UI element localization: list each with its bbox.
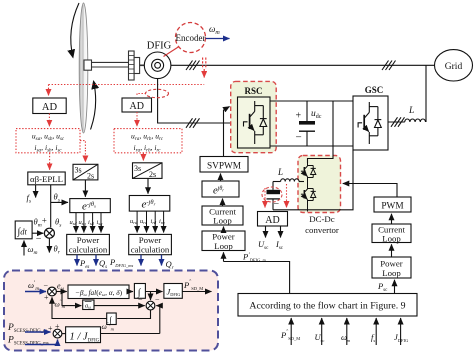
dq signals stator bbox=[75, 213, 77, 233]
svg-text:Encoder: Encoder bbox=[176, 33, 206, 43]
sum junction e_w bbox=[48, 287, 57, 296]
speed signal arrow wm bbox=[206, 38, 230, 40]
sum2 output down-left to integrator 2 bbox=[117, 310, 150, 319]
encoder link line bbox=[164, 47, 180, 57]
IGBT Q-GSC bbox=[358, 102, 381, 144]
svg-text:Grid: Grid bbox=[445, 62, 463, 72]
SC control chain: Power Loop bbox=[372, 257, 411, 278]
integrator to J_DFIG bbox=[145, 291, 162, 293]
3s/2s transform (stator) bbox=[73, 164, 98, 180]
power calculation (stator) bbox=[67, 234, 110, 254]
svg-text:Isc: Isc bbox=[275, 239, 284, 251]
wire GSC to inductor bbox=[388, 121, 405, 123]
svg-text:convertor: convertor bbox=[305, 225, 339, 235]
svg-text:According to the flow chart in: According to the flow chart in Figure. 9 bbox=[249, 300, 405, 311]
wire 3s2s to e-jthr bbox=[147, 178, 149, 193]
svg-text:−: − bbox=[296, 132, 302, 144]
RSC inner bridge box bbox=[238, 97, 271, 148]
e_w branch down bbox=[62, 292, 74, 306]
svg-text:−: − bbox=[44, 281, 49, 290]
wm input bbox=[23, 241, 25, 256]
svg-text:PˆSD_M: PˆSD_M bbox=[280, 330, 300, 341]
IGBT Q-RSC bbox=[244, 101, 267, 144]
rotation arrow left bbox=[71, 3, 79, 58]
svg-text:+: + bbox=[42, 216, 47, 226]
fs output bbox=[35, 185, 37, 198]
svg-text:ωm: ωm bbox=[209, 24, 220, 36]
chopper IGBT upper bbox=[301, 163, 316, 182]
main shaft bbox=[92, 61, 129, 63]
feedback to sum 1 bbox=[52, 298, 107, 319]
three-phase slashes (rotor) bbox=[186, 118, 193, 128]
alpha-beta EPLL block bbox=[28, 172, 65, 185]
anti-parallel diode D-GSC bbox=[377, 107, 379, 136]
svg-text:Psc: Psc bbox=[377, 281, 388, 293]
sc chain arrows bbox=[391, 244, 393, 257]
svg-text:3s: 3s bbox=[75, 166, 82, 175]
grid branch down to GSC filter bbox=[425, 65, 427, 122]
GSC converter box bbox=[353, 96, 388, 150]
dq signals rotor bbox=[136, 211, 138, 232]
svg-text:Power: Power bbox=[380, 258, 403, 268]
gearbox bbox=[129, 51, 135, 80]
theta_s line down to sum bbox=[50, 185, 52, 228]
svg-text:ωm: ωm bbox=[28, 244, 38, 256]
svg-text:calculation: calculation bbox=[131, 245, 170, 255]
svg-text:AD: AD bbox=[265, 215, 279, 226]
measurement bus (dotted) bbox=[49, 84, 205, 86]
svg-text:θm: θm bbox=[34, 217, 42, 229]
P_sc reference bbox=[394, 280, 396, 293]
theta_r output bbox=[48, 238, 50, 252]
supercapacitor bbox=[273, 181, 281, 183]
DC-link capacitor bbox=[306, 101, 308, 121]
wire 3s2s to e-jths bbox=[84, 180, 86, 197]
svg-text:SVPWM: SVPWM bbox=[207, 161, 241, 171]
fal function block bbox=[68, 285, 129, 299]
rotor measurement loop bbox=[146, 89, 169, 97]
svg-text:L: L bbox=[408, 106, 414, 116]
svg-text:udc: udc bbox=[311, 109, 322, 120]
chain arrows bbox=[223, 227, 225, 232]
rotation e^j.theta_r block bbox=[202, 181, 239, 197]
branch to sum 2 bbox=[150, 292, 152, 301]
svg-text:Qr: Qr bbox=[166, 259, 174, 271]
svg-text:AD: AD bbox=[129, 101, 143, 112]
sc sensing taps bbox=[264, 188, 266, 208]
integrator 1 bbox=[134, 284, 145, 299]
svg-text:θs: θs bbox=[55, 217, 61, 229]
svg-text:fs: fs bbox=[371, 332, 375, 343]
DC bus feed to DC-DC bbox=[308, 101, 334, 163]
sum junction 3 bbox=[53, 329, 62, 338]
svg-text:Power: Power bbox=[212, 232, 235, 242]
rotor tap wire bbox=[137, 93, 146, 95]
battery inductor L_bat bbox=[281, 179, 299, 182]
DC-DC convertor dashed box bbox=[298, 156, 341, 213]
RSC control chain: Current Loop bbox=[202, 206, 243, 225]
e^-j.theta_r rotation block bbox=[129, 196, 170, 212]
AD converter (rotor) bbox=[122, 98, 152, 112]
svg-text:ird: ird bbox=[151, 218, 157, 225]
wire to 3s2s (stator) bbox=[80, 141, 85, 150]
a_w to sum 2 bbox=[94, 305, 145, 307]
svg-text:+: + bbox=[44, 293, 49, 302]
svg-text:−: − bbox=[138, 296, 143, 305]
P'DFIG_m reference into Power Loop bbox=[224, 262, 290, 294]
wire to EPLL bbox=[49, 153, 51, 170]
3s/2s transform (rotor) bbox=[133, 163, 163, 179]
anti-parallel diode D-RSC bbox=[262, 106, 264, 135]
chopper return wire bbox=[273, 150, 353, 210]
svg-text:isd: isd bbox=[88, 219, 95, 226]
svg-text:DFIG: DFIG bbox=[147, 41, 172, 52]
stator wire to grid bbox=[171, 64, 435, 66]
svg-text:αβ-EPLL: αβ-EPLL bbox=[30, 174, 63, 184]
e_w wire bbox=[56, 291, 66, 293]
svg-text:JDFIG: JDFIG bbox=[394, 332, 409, 343]
1/J_DFIG block bbox=[66, 327, 101, 343]
svg-text:AD: AD bbox=[42, 102, 58, 113]
encoder bbox=[176, 23, 206, 53]
svg-text:−βω fal(eω, α, δ): −βω fal(eω, α, δ) bbox=[75, 288, 123, 297]
wire AD to stator signal box bbox=[48, 114, 50, 127]
svg-text:fs: fs bbox=[27, 193, 32, 205]
flow chart decision box bbox=[238, 294, 417, 317]
a_w gain block bbox=[83, 300, 94, 310]
DC bus rails bbox=[270, 100, 353, 102]
svg-text:+: + bbox=[55, 322, 60, 331]
svg-text:P′DFIG_m: P′DFIG_m bbox=[242, 252, 267, 263]
three-phase slashes (near grid) bbox=[382, 61, 389, 71]
sum3 to 1/J block bbox=[62, 333, 66, 335]
svg-text:+: + bbox=[48, 324, 53, 333]
integrator 2 bbox=[107, 313, 117, 325]
estimator dashed box (speed/power observer) bbox=[4, 271, 218, 351]
svg-text:usq: usq bbox=[79, 219, 87, 226]
fal to integrator bbox=[129, 291, 133, 293]
DFIG machine bbox=[144, 52, 171, 79]
svg-text:θs: θs bbox=[54, 192, 60, 204]
svg-text:Loop: Loop bbox=[214, 241, 233, 251]
supercap sensing ellipse bbox=[262, 187, 282, 202]
svg-text:irq: irq bbox=[159, 218, 165, 225]
J_DFIG gain block bbox=[164, 284, 182, 299]
svg-text:L: L bbox=[277, 167, 283, 177]
svg-text:Loop: Loop bbox=[213, 216, 232, 226]
sum junction 2 bbox=[146, 301, 155, 310]
right feedback into sum2 bbox=[159, 306, 161, 334]
sum junction theta bbox=[32, 232, 43, 234]
svg-text:PWM: PWM bbox=[381, 202, 403, 212]
svg-text:2s: 2s bbox=[149, 170, 156, 179]
svg-text:isq: isq bbox=[97, 219, 104, 226]
AD converter (stator) bbox=[33, 98, 66, 114]
svg-text:3s: 3s bbox=[134, 164, 141, 173]
P_SD_M output bbox=[182, 291, 211, 293]
grid bbox=[435, 50, 473, 81]
RSC converter dashed box bbox=[231, 81, 277, 152]
SC control chain: Current Loop bbox=[372, 224, 411, 243]
rotor power outputs bbox=[140, 255, 142, 266]
svg-text:PDFIG_ms: PDFIG_ms bbox=[109, 257, 133, 268]
rotor signal box bbox=[114, 129, 182, 153]
RSC control chain: Power Loop bbox=[202, 231, 245, 251]
wind turbine blade bbox=[79, 3, 88, 133]
three-phase slashes (stator) bbox=[186, 61, 193, 71]
wire to 3s2s (rotor) bbox=[142, 153, 144, 161]
three-phase slashes (GSC output) bbox=[391, 117, 398, 127]
svg-text:Pes: Pes bbox=[79, 258, 89, 270]
svg-text:Qs: Qs bbox=[99, 258, 107, 270]
rotation arrow right bbox=[91, 81, 96, 130]
flow chart inputs bbox=[290, 318, 292, 345]
svg-text:Usc: Usc bbox=[315, 332, 325, 343]
inductor L (grid side) bbox=[405, 119, 426, 122]
hub bbox=[84, 60, 92, 70]
chopper IGBT lower bbox=[301, 182, 316, 212]
estimated speed line bbox=[101, 333, 160, 335]
svg-text:DC-Dc: DC-Dc bbox=[309, 214, 335, 224]
svg-text:∫dt: ∫dt bbox=[17, 227, 28, 238]
svg-text:GSC: GSC bbox=[365, 85, 384, 95]
svg-text:+: + bbox=[296, 111, 302, 122]
svg-text:ωm: ωm bbox=[341, 332, 351, 343]
rotor wire down from DFIG bbox=[158, 79, 238, 123]
stator signal box bbox=[16, 129, 80, 153]
svg-text:Usc: Usc bbox=[258, 239, 269, 251]
svg-text:RSC: RSC bbox=[244, 86, 262, 96]
power calculation (rotor) bbox=[129, 234, 172, 254]
AD sc outputs bbox=[265, 226, 267, 238]
stator measurement tap bbox=[203, 58, 206, 70]
svg-text:Loop: Loop bbox=[382, 233, 401, 243]
stator power outputs bbox=[76, 255, 78, 266]
svg-text:θr: θr bbox=[54, 244, 61, 256]
shaft to generator bbox=[140, 64, 145, 66]
svg-text:Loop: Loop bbox=[382, 268, 401, 278]
PWM gate signal to chopper bbox=[344, 184, 398, 198]
AD converter (supercap) bbox=[258, 212, 288, 227]
SVPWM block bbox=[200, 157, 248, 173]
svg-text:−: − bbox=[155, 296, 160, 305]
svg-text:−: − bbox=[36, 234, 42, 245]
wire AD to rotor signal box bbox=[136, 112, 138, 126]
svg-text:calculation: calculation bbox=[69, 245, 108, 255]
theta_s branch to e-jths bbox=[51, 201, 68, 203]
SC control chain: PWM bbox=[374, 197, 411, 212]
svg-text:2s: 2s bbox=[87, 172, 94, 181]
integrator dt block bbox=[15, 221, 32, 239]
SVPWM to RSC arrow bbox=[223, 110, 225, 157]
e^-j.theta_s rotation block bbox=[70, 199, 111, 213]
